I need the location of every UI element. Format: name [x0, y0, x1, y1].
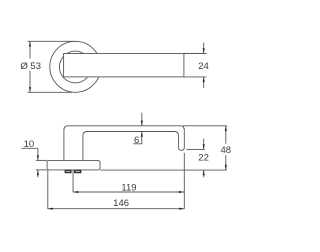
rose plate (side view)	[47, 160, 100, 170]
dimension labels	[20, 61, 231, 209]
dim 146 dimension line	[48, 208, 185, 210]
dim Ø53 arrow down	[29, 87, 31, 92]
dim Ø53 extension line bottom	[28, 91, 73, 93]
dim 48 dimension line	[225, 126, 227, 144]
svg-text:22: 22	[198, 153, 209, 164]
dim 22 extension line (bend bottom)	[187, 148, 205, 150]
dim 119 extension line left (spindle axis)	[72, 170, 74, 192]
dim 24 arrow up (bottom)	[203, 77, 205, 82]
dim Ø53 arrow up	[29, 41, 31, 46]
dim Ø53 extension line top	[28, 40, 76, 42]
dim 6 dimension line tails + leader	[141, 113, 143, 126]
rose inner circle (front view)	[59, 51, 91, 83]
svg-text:119: 119	[121, 183, 136, 194]
dim 146 arrow right	[179, 208, 184, 210]
dim 48 arrow up	[225, 126, 227, 131]
dim 10 dimension line tails + leader underline	[37, 148, 39, 160]
dim 24 extension line top	[184, 53, 207, 55]
dim 22 arrow down	[203, 144, 205, 149]
svg-text:10: 10	[24, 139, 35, 150]
dim 24 extension line bottom	[184, 76, 207, 78]
dim 24 dimension line tails	[203, 43, 205, 54]
bend outer extension line (right, for 119 and 146)	[183, 153, 185, 209]
dim 146 arrow left	[48, 208, 53, 210]
svg-text:24: 24	[198, 61, 209, 72]
dim 6 arrow down	[141, 121, 143, 126]
svg-text:Ø 53: Ø 53	[20, 61, 41, 72]
dim 48 extension line top	[183, 125, 227, 127]
dim 119 dimension line	[73, 191, 184, 193]
dim 10 arrow down	[37, 155, 39, 160]
dim 146 extension line left (plate left)	[47, 170, 49, 209]
svg-text:6: 6	[134, 135, 139, 146]
svg-text:146: 146	[113, 198, 129, 209]
dim 10 arrow up	[37, 170, 39, 175]
rose outer circle (front view)	[50, 41, 101, 92]
shared bottom extension line (plate bottom, for 22 and 48)	[100, 169, 227, 171]
dim 24 arrow down (top)	[203, 48, 205, 53]
dim 119 arrow right	[179, 191, 184, 193]
dim 6 arrow up	[141, 132, 143, 137]
lever bar (front view)	[64, 54, 184, 77]
dim Ø53 dimension line	[29, 41, 31, 58]
dim 22 dimension line tails	[203, 139, 205, 150]
screw lugs (side view)	[65, 170, 80, 172]
arrowheads	[29, 41, 227, 210]
dim 22 arrow up	[203, 170, 205, 175]
svg-text:48: 48	[221, 145, 232, 156]
dim 119 arrow left	[73, 191, 78, 193]
dim 48 arrow down	[225, 165, 227, 170]
handle profile (side view)	[64, 126, 184, 161]
dim 10 extension lines	[36, 159, 47, 161]
